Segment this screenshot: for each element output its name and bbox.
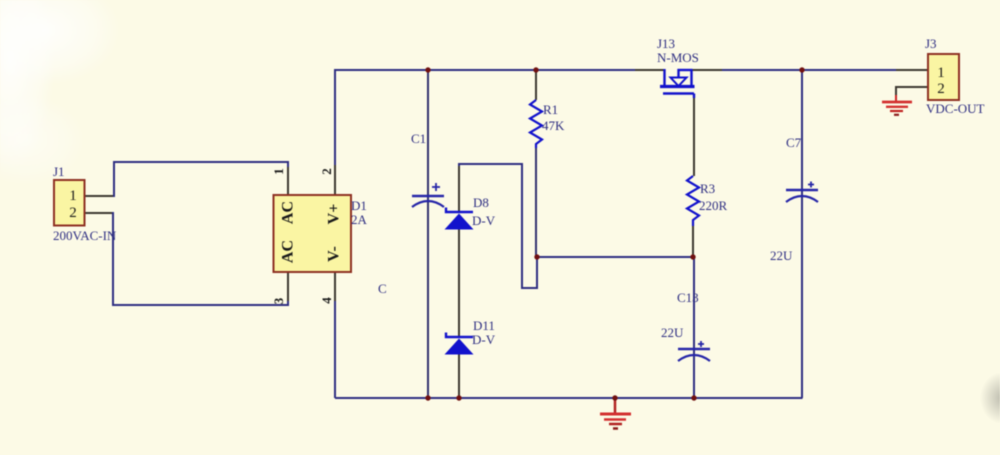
svg-text:AC: AC: [280, 201, 297, 224]
wire top rail left segment: [335, 69, 635, 71]
junction D11 bottom: [456, 395, 461, 400]
ground on bottom rail: [600, 398, 631, 429]
junction C1 top: [425, 67, 430, 72]
capacitor C7: [786, 182, 818, 203]
wire C13 vertical: [693, 257, 695, 398]
svg-text:D-V: D-V: [472, 213, 496, 228]
wire J1 pin1 stub: [84, 195, 114, 197]
svg-text:V-: V-: [326, 246, 343, 262]
connector J3: [928, 54, 959, 100]
wire C1 vertical: [427, 70, 429, 398]
n-mosfet J13: [660, 69, 695, 98]
wire J1 pin2 stub: [84, 212, 113, 214]
svg-text:C1: C1: [411, 131, 426, 146]
svg-text:D-V: D-V: [472, 332, 496, 347]
svg-text:N-MOS: N-MOS: [657, 50, 699, 65]
wire bridge pin4 to bottom rail: [334, 301, 336, 398]
junction R1 top: [533, 67, 538, 72]
zener diode D11: [445, 333, 474, 355]
svg-text:4: 4: [319, 297, 334, 304]
svg-text:C: C: [378, 281, 387, 296]
wire bridge pin2 vertical: [334, 69, 336, 165]
wire bridge pin1 stub: [287, 167, 289, 195]
junction C1 bottom: [425, 395, 430, 400]
svg-text:D1: D1: [351, 198, 367, 213]
svg-text:220R: 220R: [699, 198, 728, 213]
bridge rectifier D1: [274, 195, 352, 272]
wire D8 anode to D11 cathode: [458, 229, 460, 337]
junction C7 top: [799, 67, 804, 72]
ground under J3: [882, 95, 912, 115]
wire J3 pin2 stub: [896, 87, 928, 95]
wire bridge pin4 stub: [334, 272, 336, 301]
svg-text:2A: 2A: [351, 212, 368, 227]
svg-text:D8: D8: [473, 195, 489, 210]
capacitor C13: [678, 341, 710, 361]
junction ground: [612, 395, 617, 400]
wire D8 top stub: [458, 166, 460, 211]
wire R1 top stub: [535, 70, 537, 100]
svg-text:3: 3: [271, 297, 286, 304]
svg-text:AC: AC: [280, 240, 297, 263]
wire bottom rail: [335, 397, 803, 399]
wire R1 bottom to node A: [535, 148, 537, 257]
wire top rail right segment: [722, 69, 896, 71]
wire D8 cathode loop: [459, 164, 537, 288]
svg-text:J1: J1: [53, 164, 65, 179]
zener diode D8: [445, 208, 474, 230]
svg-text:2: 2: [937, 81, 945, 97]
svg-text:1: 1: [937, 65, 945, 81]
wire mosfet drain stub: [635, 69, 664, 71]
svg-text:J13: J13: [657, 36, 675, 51]
svg-text:V+: V+: [326, 204, 343, 225]
wire J1 pin1 to bridge pin1: [114, 162, 288, 197]
wire J3 pin1 stub: [896, 69, 928, 71]
wire mosfet gate to R3: [693, 97, 695, 176]
svg-text:R1: R1: [543, 102, 558, 117]
resistor R1: [530, 100, 542, 148]
svg-text:VDC-OUT: VDC-OUT: [926, 101, 985, 116]
resistor R3: [687, 176, 699, 226]
wire C7 vertical: [801, 70, 803, 398]
svg-text:C13: C13: [677, 290, 699, 305]
svg-text:D11: D11: [473, 318, 495, 333]
svg-text:C7: C7: [786, 135, 802, 150]
wire node A to node B: [536, 256, 693, 258]
wire bridge pin3 stub: [287, 272, 289, 301]
svg-text:2: 2: [69, 205, 77, 221]
svg-text:22U: 22U: [661, 325, 684, 340]
junction node B: [690, 254, 695, 259]
capacitor C1: [412, 183, 444, 207]
wire J1 pin2 to bridge pin3: [113, 212, 288, 305]
svg-text:22U: 22U: [770, 248, 793, 263]
svg-text:R3: R3: [700, 181, 715, 196]
svg-text:200VAC-IN: 200VAC-IN: [53, 228, 117, 243]
wire bridge pin2 stub: [334, 165, 336, 195]
connector J1: [54, 180, 85, 226]
wire R3 bottom to node B: [692, 226, 694, 257]
svg-text:1: 1: [69, 188, 77, 204]
svg-text:1: 1: [271, 168, 286, 175]
svg-text:47K: 47K: [542, 118, 565, 133]
junction node A: [534, 254, 539, 259]
wire D11 anode to bottom rail: [458, 354, 460, 398]
junction C13 bottom: [691, 395, 696, 400]
wire mosfet source stub: [692, 69, 722, 71]
svg-text:J3: J3: [925, 36, 937, 51]
svg-text:2: 2: [319, 168, 334, 175]
